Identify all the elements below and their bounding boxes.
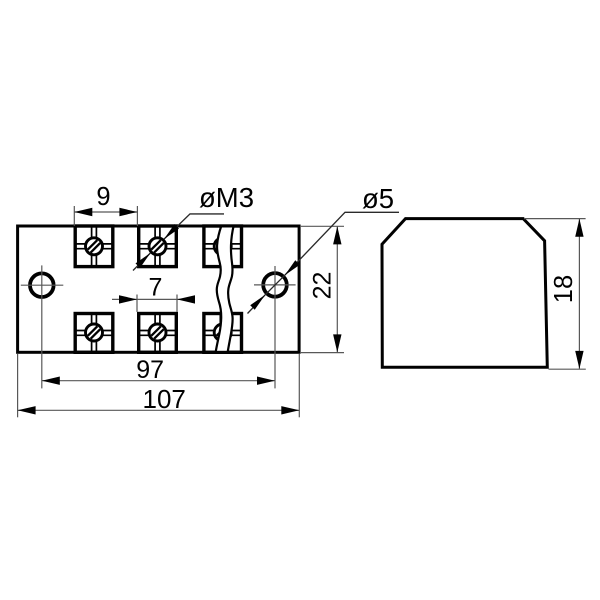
svg-text:107: 107	[143, 384, 186, 414]
svg-text:7: 7	[149, 273, 163, 301]
svg-text:18: 18	[550, 275, 578, 303]
svg-text:9: 9	[96, 183, 110, 211]
svg-text:22: 22	[309, 272, 337, 300]
svg-text:97: 97	[136, 356, 164, 384]
svg-text:ø5: ø5	[362, 183, 394, 214]
svg-text:øM3: øM3	[199, 182, 254, 213]
